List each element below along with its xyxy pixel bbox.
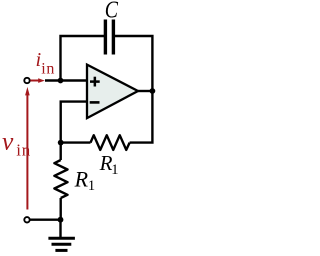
label v_in [2, 126, 31, 159]
terminal input open circle [24, 78, 29, 83]
label C [105, 0, 119, 24]
svg-text:in: in [16, 141, 31, 160]
svg-text:v: v [2, 126, 14, 155]
wire non-inverting input [45, 79, 88, 81]
terminal bottom open circle [24, 217, 29, 222]
svg-text:C: C [105, 0, 119, 24]
svg-text:R: R [74, 167, 89, 192]
wire from input node up and right to capacitor left plate [61, 36, 105, 82]
op-amp U1 [87, 65, 138, 119]
wire from output node down and left to feedback resistor [130, 90, 153, 143]
capacitor C [105, 20, 113, 55]
node ground junction [58, 217, 64, 223]
wire inverting input down to resistor node [61, 102, 88, 143]
node output junction [150, 88, 156, 94]
wire bottom from input terminal to ground node [30, 218, 61, 220]
label i_in [36, 49, 55, 78]
node resistor junction [58, 140, 64, 146]
svg-text:in: in [41, 61, 55, 78]
label R1 feedback [99, 151, 119, 178]
svg-text:1: 1 [88, 178, 95, 194]
node input junction [58, 78, 64, 84]
ground [48, 220, 75, 251]
wire from capacitor right plate to output node [115, 36, 153, 90]
voltage arrow v_in [25, 87, 30, 210]
svg-text:1: 1 [111, 162, 118, 178]
current arrow i_in [30, 78, 45, 83]
wire op-amp output [138, 90, 154, 92]
resistor R1 feedback (horizontal) [61, 135, 130, 150]
label R1 shunt [74, 167, 96, 195]
resistor R1 shunt (vertical) [54, 143, 67, 220]
